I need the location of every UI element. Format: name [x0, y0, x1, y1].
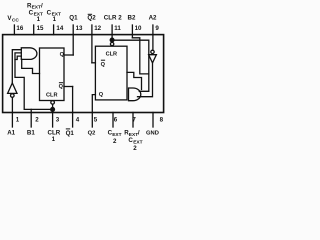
svg-text:1: 1 — [53, 16, 57, 23]
svg-text:Q: Q — [59, 84, 64, 90]
svg-text:Q2: Q2 — [88, 131, 96, 137]
svg-text:B1: B1 — [27, 130, 35, 137]
svg-text:CLR: CLR — [106, 51, 118, 57]
svg-text:14: 14 — [56, 25, 63, 32]
svg-text:B2: B2 — [128, 15, 136, 22]
svg-text:6: 6 — [114, 117, 118, 124]
svg-text:Q: Q — [99, 92, 104, 98]
svg-text:CC: CC — [12, 17, 19, 23]
svg-text:5: 5 — [94, 117, 98, 124]
svg-text:GND: GND — [146, 131, 159, 137]
svg-text:Q1: Q1 — [69, 15, 78, 22]
svg-text:Q1: Q1 — [66, 130, 75, 137]
svg-text:CLR 2: CLR 2 — [104, 15, 122, 22]
svg-text:/: / — [138, 130, 140, 137]
svg-text:4: 4 — [76, 117, 80, 124]
svg-text:7: 7 — [132, 117, 136, 124]
svg-text:2: 2 — [35, 117, 39, 124]
svg-text:A1: A1 — [7, 130, 15, 137]
svg-text:/: / — [41, 3, 43, 10]
svg-text:13: 13 — [76, 25, 83, 32]
svg-text:1: 1 — [16, 117, 20, 124]
svg-text:12: 12 — [94, 25, 101, 32]
svg-text:16: 16 — [16, 25, 23, 32]
svg-text:11: 11 — [114, 25, 121, 32]
svg-text:EXT: EXT — [112, 132, 121, 138]
svg-text:3: 3 — [56, 117, 60, 124]
svg-text:15: 15 — [37, 25, 44, 32]
svg-text:CLR: CLR — [46, 93, 58, 99]
svg-text:A2: A2 — [149, 15, 157, 22]
svg-text:Q: Q — [101, 62, 106, 68]
svg-text:1: 1 — [37, 16, 41, 23]
svg-text:2: 2 — [133, 145, 137, 150]
svg-text:Q2: Q2 — [87, 15, 96, 22]
svg-text:2: 2 — [113, 138, 117, 145]
svg-text:8: 8 — [160, 117, 164, 124]
svg-text:9: 9 — [155, 25, 159, 32]
svg-text:1: 1 — [52, 136, 56, 143]
svg-text:10: 10 — [135, 25, 142, 32]
svg-text:Q: Q — [60, 52, 65, 58]
